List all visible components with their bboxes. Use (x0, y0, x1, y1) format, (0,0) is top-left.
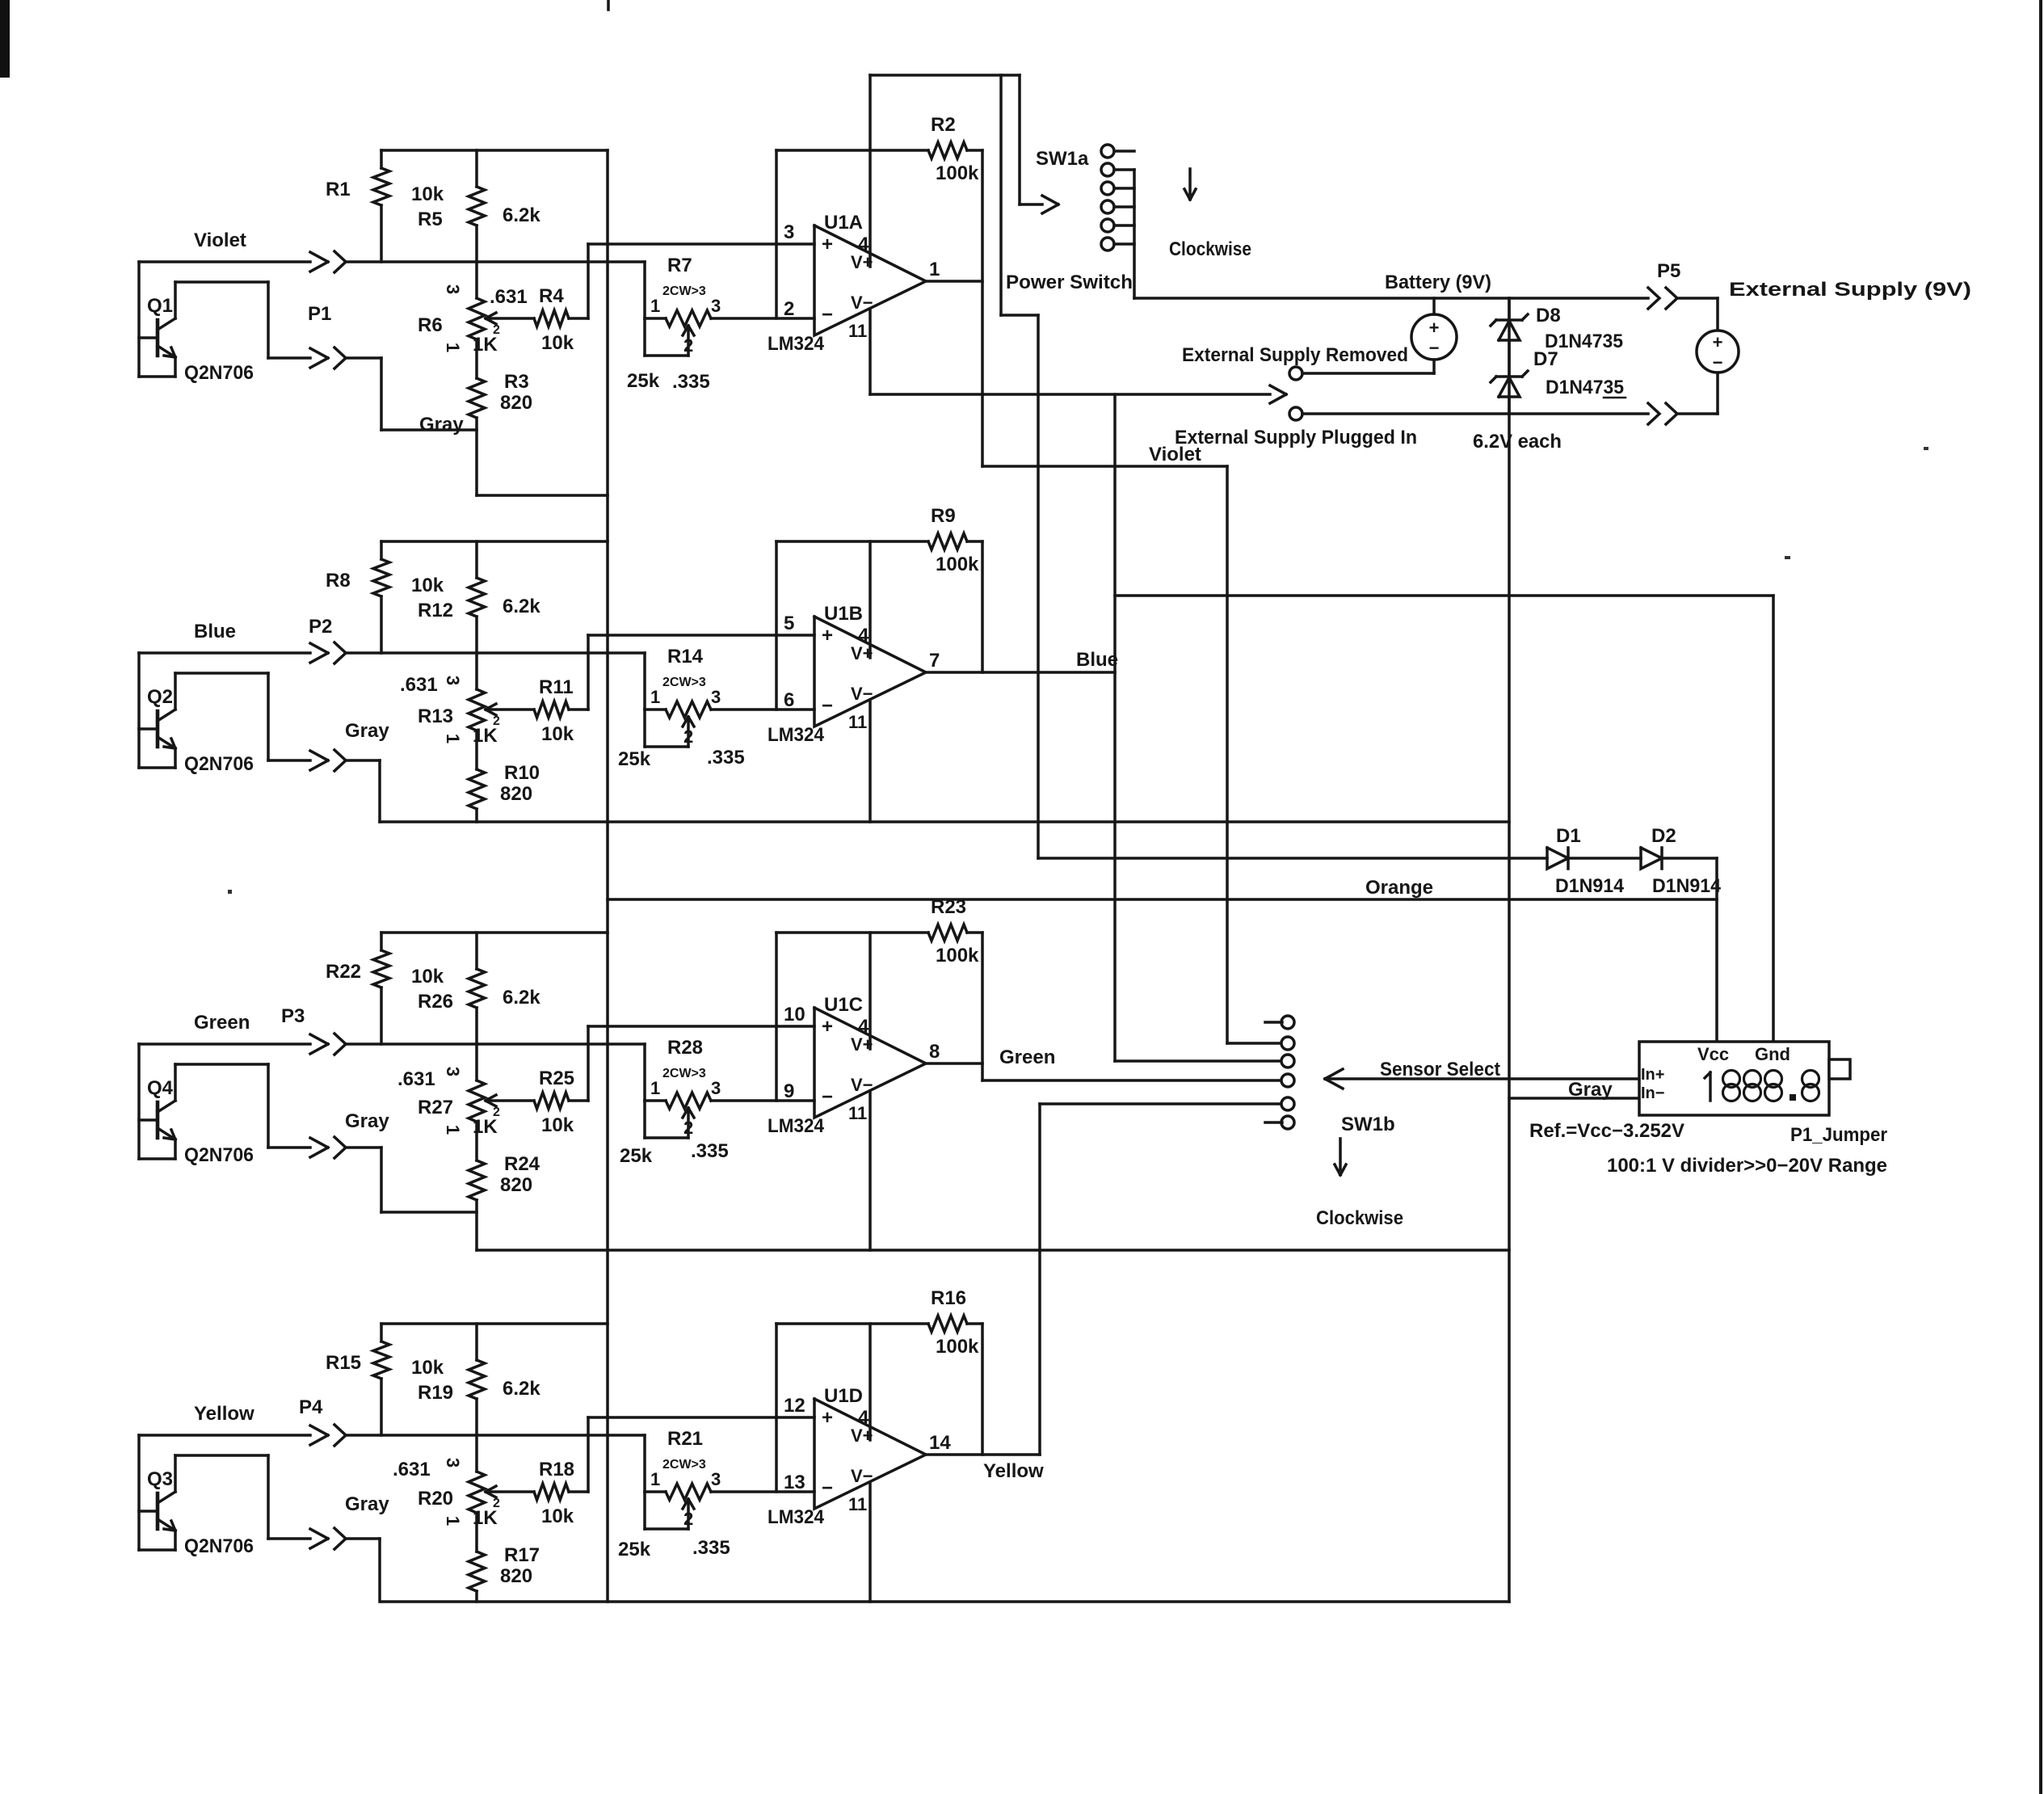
resistor R5 6.2k (418, 150, 540, 262)
svg-text:Green: Green (999, 1046, 1055, 1068)
svg-text:LM324: LM324 (768, 1506, 825, 1528)
wire gray return with arrow to P3 (268, 1138, 328, 1157)
svg-text:Violet: Violet (194, 230, 246, 251)
label 100:1 V divider>>0-20V Range (1607, 1155, 1887, 1177)
transistor Q1 Violet sensor (Q2N706) (139, 262, 268, 384)
svg-text:Gray: Gray (345, 1110, 389, 1132)
svg-text:R13: R13 (418, 705, 453, 727)
svg-text:External Supply Removed: External Supply Removed (1182, 344, 1408, 366)
svg-text:D8: D8 (1536, 305, 1561, 326)
zener diode D8 (D1N4735) (1491, 298, 1623, 377)
svg-text:External Supply Plugged In: External Supply Plugged In (1175, 427, 1417, 448)
svg-text:Blue: Blue (1076, 649, 1118, 671)
svg-text:Blue: Blue (194, 621, 236, 642)
svg-text:Gray: Gray (345, 1493, 389, 1515)
battery source B1 (9V) (1411, 298, 1457, 373)
label connector P2 (309, 616, 332, 638)
svg-text:Green: Green (194, 1012, 250, 1034)
svg-text:1: 1 (443, 734, 463, 743)
wire gray branch (345, 760, 380, 822)
scan artifact: speck 3 (1785, 556, 1790, 559)
svg-text:2: 2 (784, 298, 794, 320)
wire Blue input row (345, 651, 645, 655)
clockwise arrow (SW1a) (1184, 169, 1196, 200)
source External Supply (9V) (1697, 331, 1739, 414)
svg-text:Q4: Q4 (147, 1077, 174, 1099)
svg-text:10k: 10k (541, 723, 574, 745)
wire R28 pin 3 to op-amp - input (711, 1099, 814, 1102)
resistor R1 10k (326, 150, 444, 262)
resistor R2 100k (776, 114, 982, 184)
svg-text:1K: 1K (473, 725, 498, 747)
svg-text:.335: .335 (707, 747, 745, 769)
svg-text:9: 9 (784, 1080, 794, 1102)
label net Gray (419, 414, 464, 436)
wire U1B pin 4 V+ stub (868, 541, 872, 658)
svg-text:1: 1 (443, 1125, 463, 1135)
svg-text:Vcc: Vcc (1697, 1044, 1729, 1064)
op-amp U1C (LM324) (768, 994, 940, 1137)
wire U1C output pin 8 (Green) (926, 1063, 1282, 1080)
svg-text:3: 3 (711, 296, 721, 316)
svg-text:R6: R6 (418, 314, 443, 336)
svg-text:External Supply (9V): External Supply (9V) (1729, 279, 1971, 301)
svg-text:Q2: Q2 (147, 686, 173, 708)
svg-text:25k: 25k (620, 1145, 653, 1167)
svg-text:3: 3 (711, 1469, 721, 1489)
wire Green to R28 pin 1 (643, 1044, 646, 1101)
svg-text:P5: P5 (1657, 260, 1680, 282)
svg-text:D1N4735: D1N4735 (1546, 377, 1624, 398)
wire U1B output pin 7 (Blue) (926, 671, 1115, 674)
svg-text:LM324: LM324 (768, 333, 825, 355)
wire SW1a arm with arrow (1020, 75, 1058, 213)
svg-text:Yellow: Yellow (983, 1460, 1044, 1482)
label net Green (194, 1012, 250, 1034)
svg-text:2: 2 (493, 714, 500, 728)
svg-text:+: + (822, 1016, 833, 1038)
svg-text:100:1 V divider>>0−20V Range: 100:1 V divider>>0−20V Range (1607, 1155, 1887, 1177)
resistor R12 6.2k (418, 541, 540, 653)
svg-text:11: 11 (848, 1103, 867, 1123)
svg-text:D2: D2 (1651, 825, 1676, 847)
svg-text:Gray: Gray (1568, 1079, 1613, 1101)
svg-text:R21: R21 (667, 1428, 703, 1450)
svg-text:14: 14 (929, 1432, 951, 1454)
switch SW1a contact 1 (1101, 145, 1134, 158)
svg-text:5: 5 (784, 613, 794, 634)
svg-text:R15: R15 (326, 1352, 361, 1374)
wire R14 pin 3 to op-amp - input (711, 708, 814, 711)
wire chevrons to external supply bottom (1677, 412, 1718, 415)
diode D2 (D1N914) (1641, 825, 1722, 897)
svg-text:.631: .631 (400, 674, 438, 696)
wire gray bottom bus (channel 4) (381, 1600, 1509, 1603)
svg-text:2: 2 (683, 726, 693, 747)
label net Yellow (983, 1460, 1044, 1482)
clockwise arrow (SW1b) (1335, 1139, 1346, 1175)
svg-text:Q2N706: Q2N706 (184, 362, 254, 384)
diode D1 (D1N914) (1547, 825, 1625, 897)
label net Violet (194, 230, 246, 251)
svg-text:.631: .631 (393, 1459, 431, 1480)
svg-text:6.2k: 6.2k (503, 987, 540, 1009)
meter module (DPM) (1639, 1042, 1850, 1115)
svg-text:1: 1 (650, 1469, 660, 1489)
svg-text:1K: 1K (473, 1116, 498, 1138)
svg-text:3: 3 (443, 676, 463, 685)
label net Gray (345, 1493, 389, 1515)
svg-text:+: + (1429, 318, 1440, 338)
svg-text:100k: 100k (936, 945, 979, 966)
wire U1A pin 4 V+ stub (868, 75, 872, 267)
wire U1B pin 11 V- stub (868, 700, 872, 822)
svg-text:R28: R28 (667, 1037, 703, 1059)
wire channel 3 top rail (381, 931, 608, 934)
label net Gray (meter) (1568, 1079, 1613, 1101)
svg-text:R18: R18 (539, 1459, 574, 1480)
svg-text:−: − (822, 1477, 833, 1499)
svg-text:D1: D1 (1556, 825, 1581, 847)
connector P2 upper pin chevron (334, 642, 346, 663)
svg-text:10k: 10k (541, 1506, 574, 1527)
svg-text:R3: R3 (504, 371, 529, 393)
svg-text:Gray: Gray (345, 720, 389, 742)
svg-text:Ref.=Vcc−3.252V: Ref.=Vcc−3.252V (1529, 1120, 1684, 1142)
switch SW1a contact 4 (1101, 200, 1134, 213)
svg-text:1K: 1K (473, 1507, 498, 1529)
wire Yellow input row (345, 1434, 645, 1437)
wire channel 4 top rail (381, 1322, 608, 1325)
potentiometer R6 1K (418, 262, 534, 378)
svg-text:Power Switch: Power Switch (1006, 272, 1133, 293)
wire U1A output pin 1 (926, 280, 982, 283)
switch contact: External Supply Removed (1289, 367, 1434, 380)
connector P5 lower chevrons (1648, 403, 1677, 424)
wire power switch feed riser (1001, 75, 1038, 858)
wire power to D1 (1038, 857, 1547, 860)
potentiometer R7 25k (627, 255, 721, 393)
resistor R19 6.2k (418, 1324, 540, 1435)
svg-text:1: 1 (443, 343, 463, 352)
label P1_Jumper (1790, 1124, 1887, 1146)
svg-text:Violet: Violet (1149, 444, 1201, 465)
svg-text:R5: R5 (418, 208, 443, 230)
svg-text:R27: R27 (418, 1097, 453, 1118)
svg-text:820: 820 (500, 392, 532, 414)
svg-text:−: − (822, 1086, 833, 1108)
svg-text:2: 2 (683, 1509, 693, 1529)
resistor R4 10k (534, 285, 588, 354)
potentiometer R13 1K (400, 653, 534, 769)
label Power Switch (1006, 272, 1133, 293)
svg-text:U1D: U1D (824, 1385, 863, 1407)
wire U1D pin 11 V- stub (868, 1482, 872, 1602)
svg-text:12: 12 (784, 1395, 805, 1417)
svg-text:2CW>3: 2CW>3 (662, 284, 706, 298)
svg-text:R9: R9 (931, 505, 956, 527)
svg-text:Q1: Q1 (147, 295, 173, 317)
svg-text:D1N914: D1N914 (1555, 875, 1625, 897)
switch SW1b contact 1 (1265, 1016, 1294, 1029)
wire gray bottom bus (channel 3) (477, 1249, 1509, 1252)
label net Blue (194, 621, 236, 642)
wire Violet input row (345, 260, 645, 263)
svg-text:2: 2 (493, 323, 500, 337)
svg-text:2CW>3: 2CW>3 (662, 1067, 706, 1080)
wire Gray to meter In- (1509, 1097, 1639, 1100)
resistor R24 820 (469, 1153, 540, 1250)
svg-text:SW1a: SW1a (1036, 148, 1089, 170)
resistor R22 10k (326, 933, 444, 1044)
svg-text:2CW>3: 2CW>3 (662, 1458, 706, 1472)
wire R7 pin 3 to op-amp - input (711, 317, 814, 320)
wire D2 to meter Vcc (1662, 858, 1717, 1042)
svg-text:P3: P3 (281, 1005, 305, 1027)
wire gray main bus (battery negative) (1508, 298, 1511, 1602)
wire channel 2 top rail (381, 540, 608, 543)
label Ref.=Vcc-3.252V (1529, 1120, 1684, 1142)
svg-text:Clockwise: Clockwise (1169, 238, 1251, 260)
svg-text:U1C: U1C (824, 994, 863, 1016)
svg-text:Gray: Gray (419, 414, 464, 436)
wire U1D output pin 14 (Yellow) (926, 1104, 1282, 1455)
svg-text:3: 3 (711, 1078, 721, 1098)
svg-text:R25: R25 (539, 1068, 574, 1089)
svg-text:U1A: U1A (824, 212, 863, 234)
svg-text:2: 2 (493, 1105, 500, 1119)
wire gray branch (345, 1539, 380, 1602)
wire Blue net riser to SW1b contact 3 (1115, 394, 1282, 1061)
connector P1 lower pin chevron (334, 347, 346, 368)
svg-text:P4: P4 (299, 1396, 323, 1418)
svg-text:P1_Jumper: P1_Jumper (1790, 1124, 1887, 1146)
svg-text:25k: 25k (618, 1539, 651, 1560)
transistor Q2 Blue sensor (Q2N706) (139, 653, 268, 775)
wire R9 to output node (981, 541, 984, 672)
switch contact: External Supply Plugged In (1289, 407, 1648, 420)
wire Yellow input with arrow to P4 (139, 1426, 328, 1445)
svg-text:Q3: Q3 (147, 1468, 173, 1490)
svg-text:R7: R7 (667, 255, 692, 276)
transistor Q4 Green sensor (Q2N706) (139, 1044, 268, 1166)
wire Violet net to SW1b contact 2 and meter Gnd (982, 466, 1773, 1043)
scan artifact: speck 2 (1924, 447, 1928, 450)
wire U1A pin 11 V- stub (868, 309, 872, 394)
label Battery (9V) (1385, 272, 1491, 293)
connector P1 upper pin chevron (334, 251, 346, 272)
svg-text:.631: .631 (397, 1068, 435, 1090)
svg-text:R22: R22 (326, 961, 361, 983)
svg-text:8: 8 (929, 1041, 940, 1063)
svg-text:−: − (822, 304, 833, 326)
switch SW1b contact 3 (1281, 1055, 1294, 1068)
svg-text:10k: 10k (541, 1114, 574, 1136)
resistor R25 10k (534, 1068, 588, 1136)
wire main channel bus x=752 (606, 150, 609, 1602)
svg-text:−: − (1713, 352, 1723, 373)
svg-text:.631: .631 (490, 286, 528, 308)
svg-text:R19: R19 (418, 1382, 453, 1404)
label External Supply (9V) (1729, 279, 1971, 301)
svg-text:820: 820 (500, 783, 532, 805)
switch SW1a contact 3 (1101, 182, 1134, 195)
wire U1C pin 11 V- stub (868, 1091, 872, 1250)
op-amp U1A (LM324) (768, 212, 940, 355)
svg-text:+: + (1713, 332, 1723, 352)
resistor R15 10k (326, 1324, 444, 1435)
resistor R3 820 (469, 371, 532, 495)
wire Sensor Select to meter In+ (1325, 1069, 1639, 1089)
switch SW1b contact 4 (1281, 1074, 1294, 1087)
wire gray return with arrow to P4 (268, 1529, 328, 1548)
svg-text:Battery (9V): Battery (9V) (1385, 272, 1491, 293)
op-amp U1B (LM324) (768, 603, 940, 746)
connector P3 upper pin chevron (334, 1034, 346, 1055)
svg-text:2: 2 (683, 1118, 693, 1138)
label net Gray (345, 720, 389, 742)
svg-text:−: − (1429, 338, 1440, 358)
label SW1a (1036, 148, 1089, 170)
svg-text:3: 3 (784, 221, 794, 243)
label SW1b (1341, 1114, 1395, 1135)
svg-text:Orange: Orange (1365, 877, 1433, 899)
potentiometer R27 1K (397, 1044, 534, 1160)
wire wiper node to op-amp + input (588, 244, 814, 318)
svg-text:Q2N706: Q2N706 (184, 1535, 254, 1557)
switch SW1b contact 6 (1265, 1116, 1294, 1129)
svg-text:6.2k: 6.2k (503, 204, 540, 226)
svg-text:3: 3 (711, 687, 721, 707)
wire Blue to R14 pin 1 (643, 653, 646, 710)
svg-text:100k: 100k (936, 162, 979, 184)
wire gray bottom bus (channel 2) (380, 820, 1509, 823)
svg-text:100k: 100k (936, 554, 979, 575)
label net Blue (1076, 649, 1118, 671)
label connector P1 (308, 303, 331, 325)
svg-text:2CW>3: 2CW>3 (662, 676, 706, 689)
wire R16 to output node (981, 1324, 984, 1455)
svg-text:.335: .335 (692, 1537, 730, 1559)
resistor R10 820 (469, 762, 540, 822)
svg-text:R12: R12 (418, 600, 453, 621)
svg-text:R8: R8 (326, 570, 351, 592)
resistor R18 10k (534, 1459, 588, 1527)
wire P5 to external supply top (1677, 298, 1718, 331)
label Clockwise (SW1b) (1316, 1207, 1403, 1229)
svg-text:11: 11 (848, 1494, 867, 1514)
potentiometer R20 1K (393, 1435, 534, 1552)
svg-text:10k: 10k (541, 332, 574, 354)
svg-text:SW1b: SW1b (1341, 1114, 1395, 1135)
wire Green input row (345, 1042, 645, 1046)
wire wiper node to op-amp + input (588, 1417, 814, 1492)
svg-text:R20: R20 (418, 1488, 453, 1510)
potentiometer R14 25k (618, 646, 745, 770)
svg-text:R14: R14 (667, 646, 704, 667)
svg-text:.335: .335 (672, 371, 710, 393)
svg-text:−: − (822, 695, 833, 717)
svg-text:1: 1 (650, 296, 660, 316)
svg-text:1: 1 (650, 687, 660, 707)
wire Violet to R7 pin 1 (643, 262, 646, 318)
svg-text:10k: 10k (411, 1357, 444, 1379)
wire U1C pin 4 V+ stub (868, 933, 872, 1049)
svg-text:R24: R24 (504, 1153, 540, 1175)
wire R23 to output node (981, 933, 984, 1063)
svg-text:25k: 25k (618, 748, 651, 770)
label net Orange (1365, 877, 1433, 899)
label net Yellow (194, 1403, 254, 1425)
wire V+ rail box above U1A (870, 74, 1020, 77)
switch SW1a contact 2 (1101, 163, 1134, 176)
wire Blue input with arrow to P2 (139, 643, 328, 663)
wire supply-select arrow (from U1A V- bus) (870, 385, 1286, 403)
wire channel 1 bottom rail (477, 494, 608, 497)
connector P2 lower pin chevron (334, 750, 346, 771)
wire channel 1 top rail (381, 149, 608, 152)
label net Green (999, 1046, 1055, 1068)
resistor R8 10k (326, 541, 444, 653)
svg-text:25k: 25k (627, 370, 660, 392)
label Clockwise (SW1a) (1169, 238, 1251, 260)
connector P3 lower pin chevron (334, 1137, 346, 1158)
svg-text:Q2N706: Q2N706 (184, 753, 254, 775)
wire - input feedback riser (775, 1324, 778, 1492)
wire R2 to output node and Violet riser (981, 150, 984, 466)
wire gray branch (345, 1148, 477, 1212)
scan artifact: small tick at top centre (607, 0, 610, 10)
svg-text:2: 2 (683, 335, 693, 356)
zener diode D7 (D1N4735) (1491, 348, 1626, 414)
scan artifact: right page edge line (2039, 0, 2042, 1794)
svg-text:D7: D7 (1533, 348, 1558, 370)
svg-text:Q2N706: Q2N706 (184, 1144, 254, 1166)
svg-text:6.2V each: 6.2V each (1473, 431, 1562, 453)
resistor R23 100k (776, 896, 982, 966)
resistor R16 100k (776, 1287, 982, 1358)
wire gray return with arrow to P2 (268, 751, 328, 770)
wire D1 to D2 (1568, 857, 1641, 860)
label External Supply Plugged In (1175, 427, 1417, 448)
switch SW1b contact 5 (1281, 1097, 1294, 1110)
svg-text:6.2k: 6.2k (503, 596, 540, 617)
wire SW1a pole to battery rail (1134, 170, 1648, 298)
svg-text:R11: R11 (539, 676, 574, 698)
label net Violet (routing) (1149, 444, 1201, 465)
wire gray return with arrow to P1 (268, 348, 328, 368)
svg-text:R17: R17 (504, 1544, 540, 1566)
svg-text:In−: In− (1641, 1084, 1664, 1102)
transistor Q3 Yellow sensor (Q2N706) (139, 1435, 268, 1557)
svg-text:LM324: LM324 (768, 1115, 825, 1137)
wire Green input with arrow to P3 (139, 1034, 328, 1054)
svg-text:1: 1 (650, 1078, 660, 1098)
svg-text:R10: R10 (504, 762, 540, 784)
potentiometer R28 25k (620, 1037, 729, 1167)
switch SW1a contact 5 (1101, 219, 1134, 232)
svg-text:Yellow: Yellow (194, 1403, 254, 1425)
svg-text:2: 2 (493, 1497, 500, 1510)
wire - input feedback riser (775, 150, 778, 318)
svg-text:11: 11 (848, 712, 867, 732)
svg-text:10k: 10k (411, 183, 444, 205)
wire U1D pin 4 V+ stub (868, 1324, 872, 1440)
wire Violet input with arrow to P1 (139, 252, 328, 272)
svg-text:1: 1 (443, 1516, 463, 1526)
svg-text:10k: 10k (411, 575, 444, 596)
svg-text:11: 11 (848, 321, 867, 341)
